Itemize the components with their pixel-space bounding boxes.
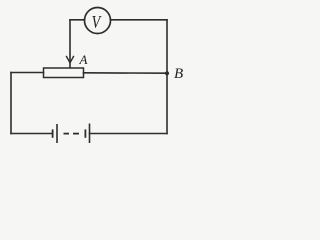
- wire: top right to voltmeter: [111, 19, 168, 21]
- resistor R1 (rheostat body): [44, 68, 84, 78]
- wire: voltmeter left lead: [70, 19, 85, 21]
- battery dash 2: [73, 133, 79, 135]
- svg-text:B: B: [174, 66, 183, 82]
- wire: right vertical through node B: [166, 20, 168, 134]
- wire: bottom left to battery: [11, 133, 52, 135]
- wire: battery to bottom right corner: [90, 133, 168, 135]
- svg-text:A: A: [79, 52, 88, 67]
- wire: left vertical down to battery: [10, 73, 12, 134]
- wiper arrowhead: [67, 57, 74, 63]
- battery BT1: cell 2 long plate: [89, 124, 91, 144]
- battery BT1: cell 2 short plate: [84, 129, 86, 137]
- wire: wiper vertical from voltmeter to rheostat: [69, 20, 71, 68]
- wire: rheostat right lead to node B: [84, 72, 168, 74]
- battery dash 1: [64, 133, 70, 135]
- battery BT1: cell 1 short plate: [52, 129, 54, 137]
- voltmeter U1 circle: [85, 8, 111, 34]
- battery BT1: cell 1 long plate: [56, 124, 58, 143]
- node B junction dot: [165, 71, 169, 75]
- wire: rheostat left lead: [11, 72, 44, 74]
